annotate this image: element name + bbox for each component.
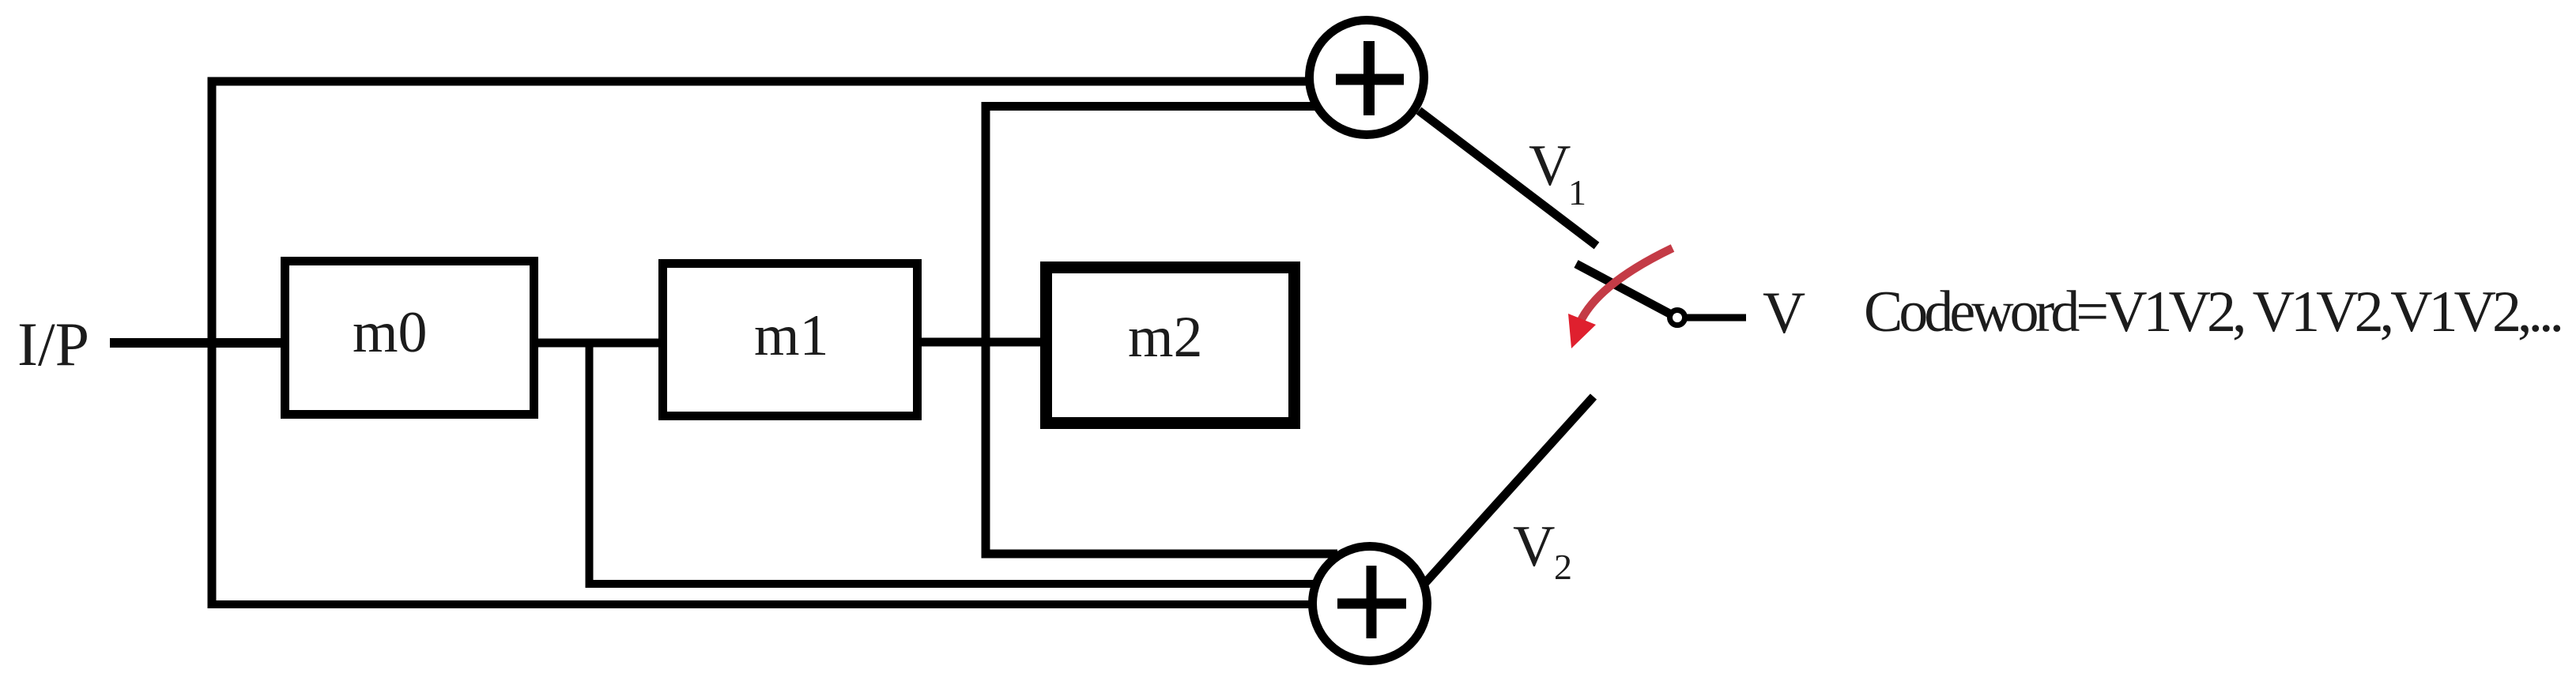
svg-text:1: 1 bbox=[1568, 172, 1586, 213]
register m0 bbox=[285, 261, 534, 415]
wire: V1 diagonal from adder U1 to switch bbox=[1419, 111, 1597, 246]
svg-text:V: V bbox=[1529, 134, 1571, 198]
wire: m0 tap to adder U2 (second bottom wire) bbox=[586, 580, 1314, 588]
wire: m1 tap down to adder U2 (first bottom wire) bbox=[982, 550, 1338, 559]
tap: m1 output vertical to both adders bbox=[982, 102, 990, 558]
node: input junction vertical feedback line bbox=[208, 77, 217, 608]
wire: input from I/P to m0 bbox=[110, 338, 294, 348]
svg-text:m1: m1 bbox=[754, 303, 829, 368]
register m1 bbox=[663, 264, 918, 416]
wire: input feedback to adder U2 (third bottom wire) bbox=[208, 600, 1311, 608]
adder U2 (bottom XOR) bbox=[1313, 547, 1428, 661]
switch contact terminal circle bbox=[1670, 310, 1685, 325]
wire: m1 tap to adder U1 (second top wire) bbox=[982, 102, 1317, 111]
switch arm (pole lever) bbox=[1576, 264, 1673, 315]
wire: V2 diagonal from adder U2 to switch bbox=[1424, 397, 1593, 584]
svg-text:m0: m0 bbox=[353, 300, 428, 365]
svg-text:I/P: I/P bbox=[17, 310, 89, 378]
svg-text:2: 2 bbox=[1554, 547, 1572, 587]
tap: m0 output down to adder U2 bbox=[586, 343, 594, 588]
register m2 bbox=[1047, 268, 1295, 423]
wire: top feed from input to adder U1 bbox=[208, 77, 1310, 86]
svg-text:V: V bbox=[1763, 280, 1805, 346]
svg-text:V: V bbox=[1513, 514, 1555, 579]
wire: m0 to m1 bbox=[530, 339, 667, 348]
red arrow: switch motion indicator bbox=[1568, 248, 1673, 348]
wire: m1 to m2 bbox=[917, 338, 1048, 347]
svg-text:Codeword=V1V2, V1V2,V1V2,...: Codeword=V1V2, V1V2,V1V2,... bbox=[1864, 280, 2564, 344]
svg-text:m2: m2 bbox=[1128, 305, 1203, 370]
adder U1 (top XOR) bbox=[1310, 21, 1424, 135]
wire: output V bbox=[1687, 314, 1746, 322]
